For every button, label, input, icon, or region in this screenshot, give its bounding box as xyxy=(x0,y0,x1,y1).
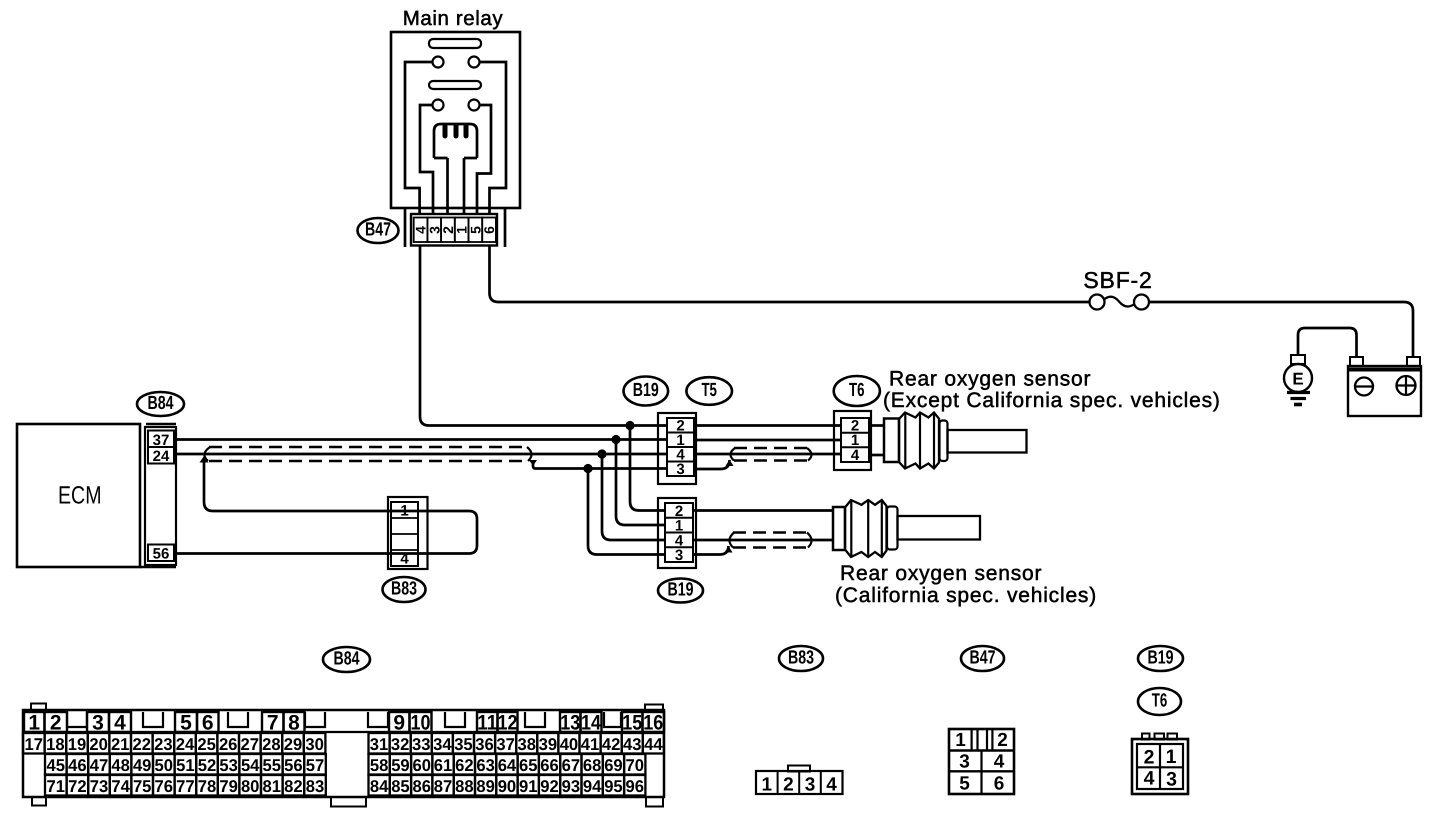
connector B19 (lower) body xyxy=(658,498,696,568)
svg-text:88: 88 xyxy=(455,777,474,796)
shield drain right to T5 pin3 xyxy=(529,460,667,469)
svg-text:T6: T6 xyxy=(849,380,865,401)
svg-text:39: 39 xyxy=(539,735,558,754)
connector B19 lower pin numbers 2 1 4 3 xyxy=(675,503,684,564)
svg-text:11: 11 xyxy=(477,712,497,735)
svg-text:16: 16 xyxy=(643,712,663,735)
svg-text:18: 18 xyxy=(46,735,65,754)
connector B83 pinout view xyxy=(756,766,843,796)
svg-text:60: 60 xyxy=(413,756,432,775)
relay contact 2 left xyxy=(433,100,444,111)
junction pin37 to lower B19 pin1 xyxy=(611,435,666,525)
connector B47 side brackets xyxy=(405,208,505,247)
connector B19/T6 pinout view xyxy=(1132,734,1188,795)
svg-text:Main relay: Main relay xyxy=(403,7,504,30)
svg-text:58: 58 xyxy=(370,756,389,775)
connector B83 pin numbers 1 4 xyxy=(400,503,409,568)
svg-text:48: 48 xyxy=(111,756,130,775)
svg-text:Rear oxygen sensor: Rear oxygen sensor xyxy=(889,368,1091,391)
svg-text:80: 80 xyxy=(241,777,260,796)
svg-text:31: 31 xyxy=(370,735,389,754)
svg-text:69: 69 xyxy=(604,756,623,775)
relay wire contact1-right to pin 6 xyxy=(480,62,507,215)
svg-text:14: 14 xyxy=(581,712,601,735)
shield around T5-T6 pin4 wire xyxy=(730,448,811,461)
wire stubs T6 to sensor xyxy=(869,426,884,456)
battery xyxy=(1348,357,1421,416)
svg-text:24: 24 xyxy=(153,448,170,465)
junction shield drain to lower B19 pin3 xyxy=(583,464,666,555)
connector B84 (ECM) body xyxy=(140,424,176,567)
connector B47 (relay) body xyxy=(411,214,497,246)
svg-text:32: 32 xyxy=(391,735,410,754)
label T5 xyxy=(686,377,732,405)
connector B47 pinout view xyxy=(949,729,1014,795)
svg-text:62: 62 xyxy=(455,756,474,775)
svg-text:78: 78 xyxy=(198,777,217,796)
fuse SBF-2 label xyxy=(1083,267,1152,293)
svg-text:33: 33 xyxy=(412,735,431,754)
svg-text:77: 77 xyxy=(176,777,195,796)
svg-text:96: 96 xyxy=(626,777,645,796)
svg-text:B84: B84 xyxy=(148,393,174,414)
svg-text:91: 91 xyxy=(519,777,538,796)
svg-text:21: 21 xyxy=(111,735,130,754)
connector B84 pinout numbers xyxy=(25,712,664,797)
svg-text:71: 71 xyxy=(47,777,66,796)
wire T5 pin1 to T6 pin1 xyxy=(694,439,841,442)
rear oxygen sensor (except California) xyxy=(884,413,1027,469)
svg-text:Rear oxygen sensor: Rear oxygen sensor xyxy=(840,562,1042,585)
connector B84 pin numbers 37 24 56 xyxy=(153,432,170,563)
connector T6 body xyxy=(834,411,871,470)
svg-text:1: 1 xyxy=(400,503,408,520)
svg-text:3: 3 xyxy=(92,712,104,735)
label B84 (ECM connector) xyxy=(137,392,184,416)
svg-text:B47: B47 xyxy=(365,220,391,241)
svg-text:2: 2 xyxy=(997,730,1008,751)
svg-text:4: 4 xyxy=(826,775,837,796)
svg-text:61: 61 xyxy=(434,756,453,775)
svg-text:3: 3 xyxy=(1166,769,1177,791)
svg-text:B83: B83 xyxy=(788,648,814,669)
relay label: Main relay xyxy=(403,7,504,30)
label B47 (relay connector) xyxy=(358,218,399,243)
svg-text:6: 6 xyxy=(481,226,497,234)
svg-text:42: 42 xyxy=(602,735,621,754)
main relay body xyxy=(391,32,520,208)
svg-text:68: 68 xyxy=(583,756,602,775)
svg-text:3: 3 xyxy=(676,461,684,478)
svg-text:10: 10 xyxy=(411,712,431,735)
wire T5 pin4 to T6 pin4 (shielded) xyxy=(694,453,841,456)
svg-text:43: 43 xyxy=(623,735,642,754)
svg-text:22: 22 xyxy=(133,735,152,754)
svg-text:37: 37 xyxy=(496,735,515,754)
wire T5 pin2 to T6 pin2 xyxy=(694,424,841,427)
wire B19 pin4 to California sensor (shielded) xyxy=(693,539,833,542)
svg-text:73: 73 xyxy=(90,777,109,796)
svg-text:30: 30 xyxy=(305,735,324,754)
svg-text:25: 25 xyxy=(197,735,216,754)
svg-text:3: 3 xyxy=(675,547,683,564)
svg-text:29: 29 xyxy=(284,735,303,754)
svg-text:87: 87 xyxy=(434,777,453,796)
svg-text:2: 2 xyxy=(50,712,62,735)
svg-text:47: 47 xyxy=(90,756,109,775)
svg-text:24: 24 xyxy=(176,735,195,754)
svg-text:28: 28 xyxy=(262,735,281,754)
svg-text:ECM: ECM xyxy=(58,482,102,510)
svg-text:B47: B47 xyxy=(970,648,996,669)
svg-text:90: 90 xyxy=(498,777,517,796)
wire ECM pin37 to T5 pin1 xyxy=(174,438,667,441)
svg-text:65: 65 xyxy=(519,756,538,775)
shield around pin24 wire (ECM side) xyxy=(200,447,532,463)
relay wire contact2-left to pin 2 xyxy=(420,105,433,215)
label B47 (bottom) xyxy=(961,646,1004,671)
svg-text:51: 51 xyxy=(176,756,195,775)
svg-text:B83: B83 xyxy=(391,579,417,600)
connector B83 body xyxy=(388,497,428,569)
svg-text:7: 7 xyxy=(267,712,279,735)
svg-text:52: 52 xyxy=(198,756,217,775)
svg-text:4: 4 xyxy=(400,551,409,568)
svg-text:75: 75 xyxy=(133,777,152,796)
svg-text:81: 81 xyxy=(263,777,282,796)
wire ECM pin56 to B83 pin4 xyxy=(174,552,469,555)
rear oxygen sensor (California) xyxy=(833,500,980,557)
svg-text:50: 50 xyxy=(155,756,174,775)
svg-text:63: 63 xyxy=(476,756,495,775)
svg-text:2: 2 xyxy=(1144,747,1155,769)
svg-text:95: 95 xyxy=(604,777,623,796)
relay coil legs to pins 3 and 4 xyxy=(448,158,465,215)
svg-text:17: 17 xyxy=(25,735,44,754)
svg-text:54: 54 xyxy=(241,756,260,775)
svg-text:89: 89 xyxy=(476,777,495,796)
svg-text:82: 82 xyxy=(284,777,303,796)
svg-text:84: 84 xyxy=(370,777,389,796)
wire B19 pin2 to California sensor xyxy=(693,509,833,512)
svg-text:86: 86 xyxy=(413,777,432,796)
svg-text:1: 1 xyxy=(762,775,773,796)
svg-text:SBF-2: SBF-2 xyxy=(1083,267,1152,293)
svg-text:46: 46 xyxy=(68,756,87,775)
relay contact bar 1 xyxy=(429,39,481,48)
svg-text:23: 23 xyxy=(154,735,173,754)
svg-text:34: 34 xyxy=(433,735,452,754)
svg-text:3: 3 xyxy=(805,775,816,796)
svg-text:64: 64 xyxy=(498,756,517,775)
label B19 (bottom) xyxy=(1138,646,1183,671)
svg-text:4: 4 xyxy=(1144,768,1155,790)
svg-text:1: 1 xyxy=(28,712,40,735)
wire battery negative to ground xyxy=(1298,328,1357,357)
shield around B19 pin4 wire xyxy=(729,533,811,548)
label: Rear oxygen sensor (Except California spec. vehicles) xyxy=(883,368,1221,413)
svg-text:1: 1 xyxy=(955,730,966,751)
label B83 (bottom) xyxy=(779,646,823,671)
svg-text:27: 27 xyxy=(241,735,260,754)
junction pin24 to lower B19 pin4 xyxy=(597,449,666,540)
svg-text:40: 40 xyxy=(560,735,579,754)
svg-text:1: 1 xyxy=(1166,746,1177,768)
svg-text:B19: B19 xyxy=(1148,648,1174,669)
svg-text:67: 67 xyxy=(562,756,581,775)
svg-text:8: 8 xyxy=(288,712,300,735)
label B84 (bottom) xyxy=(323,647,370,672)
connector B47 pin numbers 4 3 2 1 5 6 xyxy=(413,226,498,234)
relay contact 1 left xyxy=(433,57,444,68)
svg-text:4: 4 xyxy=(851,447,860,464)
svg-text:76: 76 xyxy=(155,777,174,796)
svg-text:(Except California spec. vehic: (Except California spec. vehicles) xyxy=(883,389,1221,412)
relay wire contact2-right to pin 5 xyxy=(477,105,491,215)
relay contact bar 2 xyxy=(429,81,481,89)
label: Rear oxygen sensor (California spec. vehicles) xyxy=(835,562,1097,607)
svg-text:44: 44 xyxy=(644,735,663,754)
svg-text:57: 57 xyxy=(306,756,325,775)
svg-text:26: 26 xyxy=(219,735,238,754)
wire T5 pin3 to shield drain xyxy=(694,460,734,470)
label T6 (upper) xyxy=(834,376,880,406)
wire ECM pin24 to T5 pin4 (shielded) xyxy=(174,453,667,456)
svg-text:70: 70 xyxy=(626,756,645,775)
svg-text:5: 5 xyxy=(959,774,970,795)
relay wire contact1-left to pin 1 xyxy=(405,62,433,215)
fuse SBF-2 xyxy=(1090,295,1150,310)
svg-text:53: 53 xyxy=(219,756,238,775)
ground E xyxy=(1284,355,1312,405)
label B83 (mid) xyxy=(383,577,426,602)
svg-text:37: 37 xyxy=(153,432,170,449)
svg-text:T5: T5 xyxy=(701,380,717,401)
svg-text:59: 59 xyxy=(391,756,410,775)
svg-text:15: 15 xyxy=(622,712,642,735)
svg-text:E: E xyxy=(1292,370,1303,389)
svg-text:66: 66 xyxy=(540,756,559,775)
svg-text:B19: B19 xyxy=(668,580,694,601)
connector B84 pinout view xyxy=(23,704,664,807)
svg-text:45: 45 xyxy=(47,756,66,775)
wire B19 pin3 to shield drain xyxy=(693,546,733,555)
svg-text:B84: B84 xyxy=(334,649,360,670)
svg-text:20: 20 xyxy=(89,735,108,754)
svg-text:85: 85 xyxy=(391,777,410,796)
svg-text:56: 56 xyxy=(153,546,170,563)
svg-text:6: 6 xyxy=(994,774,1005,795)
svg-text:19: 19 xyxy=(68,735,87,754)
junction supply to lower B19 pin2 xyxy=(625,421,666,511)
connector T5 pin numbers 2 1 4 3 xyxy=(676,418,685,479)
wire loop joining B83 pin1 and pin4 xyxy=(469,511,477,554)
svg-text:72: 72 xyxy=(68,777,87,796)
svg-text:35: 35 xyxy=(454,735,473,754)
svg-text:B19: B19 xyxy=(633,380,659,401)
wire relay pin6 to SBF-2 fuse xyxy=(490,246,1090,303)
svg-text:5: 5 xyxy=(180,712,192,735)
svg-text:83: 83 xyxy=(306,777,325,796)
svg-text:12: 12 xyxy=(498,712,518,735)
label B19 (lower) xyxy=(658,579,703,603)
svg-text:T6: T6 xyxy=(1152,691,1168,712)
svg-text:6: 6 xyxy=(202,712,214,735)
svg-text:49: 49 xyxy=(133,756,152,775)
wire fuse to battery positive xyxy=(1149,302,1413,357)
svg-text:74: 74 xyxy=(111,777,130,796)
svg-text:(California spec. vehicles): (California spec. vehicles) xyxy=(835,584,1097,607)
svg-text:55: 55 xyxy=(263,756,282,775)
svg-text:41: 41 xyxy=(581,735,600,754)
label T6 (bottom) xyxy=(1138,688,1181,715)
connector T6 pin numbers 2 1 4 xyxy=(851,418,860,464)
shield drain left to B83 pin1 xyxy=(204,461,469,511)
svg-text:36: 36 xyxy=(475,735,494,754)
wire relay pin1 to T5 pin2 supply xyxy=(420,246,667,426)
svg-text:9: 9 xyxy=(393,712,405,735)
svg-text:93: 93 xyxy=(562,777,581,796)
svg-text:38: 38 xyxy=(518,735,537,754)
svg-text:4: 4 xyxy=(994,752,1005,773)
label B19 (upper) xyxy=(624,377,669,406)
svg-text:92: 92 xyxy=(540,777,559,796)
svg-text:94: 94 xyxy=(583,777,602,796)
connector T5 body xyxy=(658,413,696,484)
relay contact 2 right xyxy=(469,100,480,111)
svg-text:56: 56 xyxy=(284,756,303,775)
svg-text:79: 79 xyxy=(219,777,238,796)
relay coil xyxy=(434,124,477,158)
svg-text:4: 4 xyxy=(114,712,126,735)
ECM box xyxy=(17,424,140,567)
svg-text:2: 2 xyxy=(783,775,794,796)
svg-text:13: 13 xyxy=(560,712,580,735)
svg-text:3: 3 xyxy=(959,752,970,773)
relay contact 1 right xyxy=(469,57,480,68)
